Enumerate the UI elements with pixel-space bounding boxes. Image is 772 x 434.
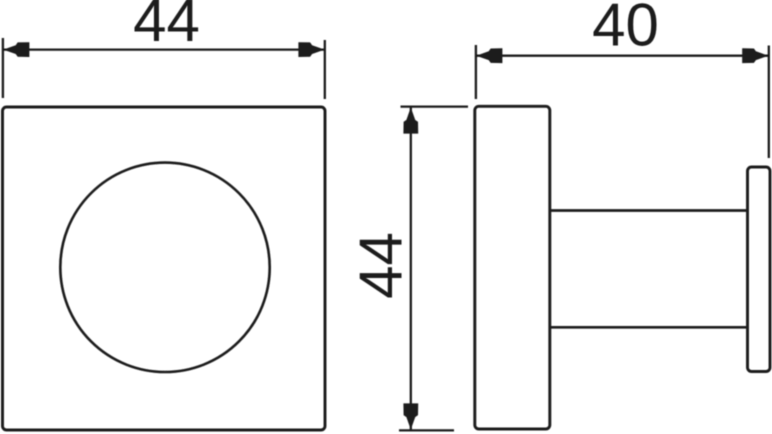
svg-text:44: 44 [133, 0, 200, 54]
svg-text:44: 44 [348, 232, 415, 299]
svg-text:40: 40 [592, 0, 659, 58]
